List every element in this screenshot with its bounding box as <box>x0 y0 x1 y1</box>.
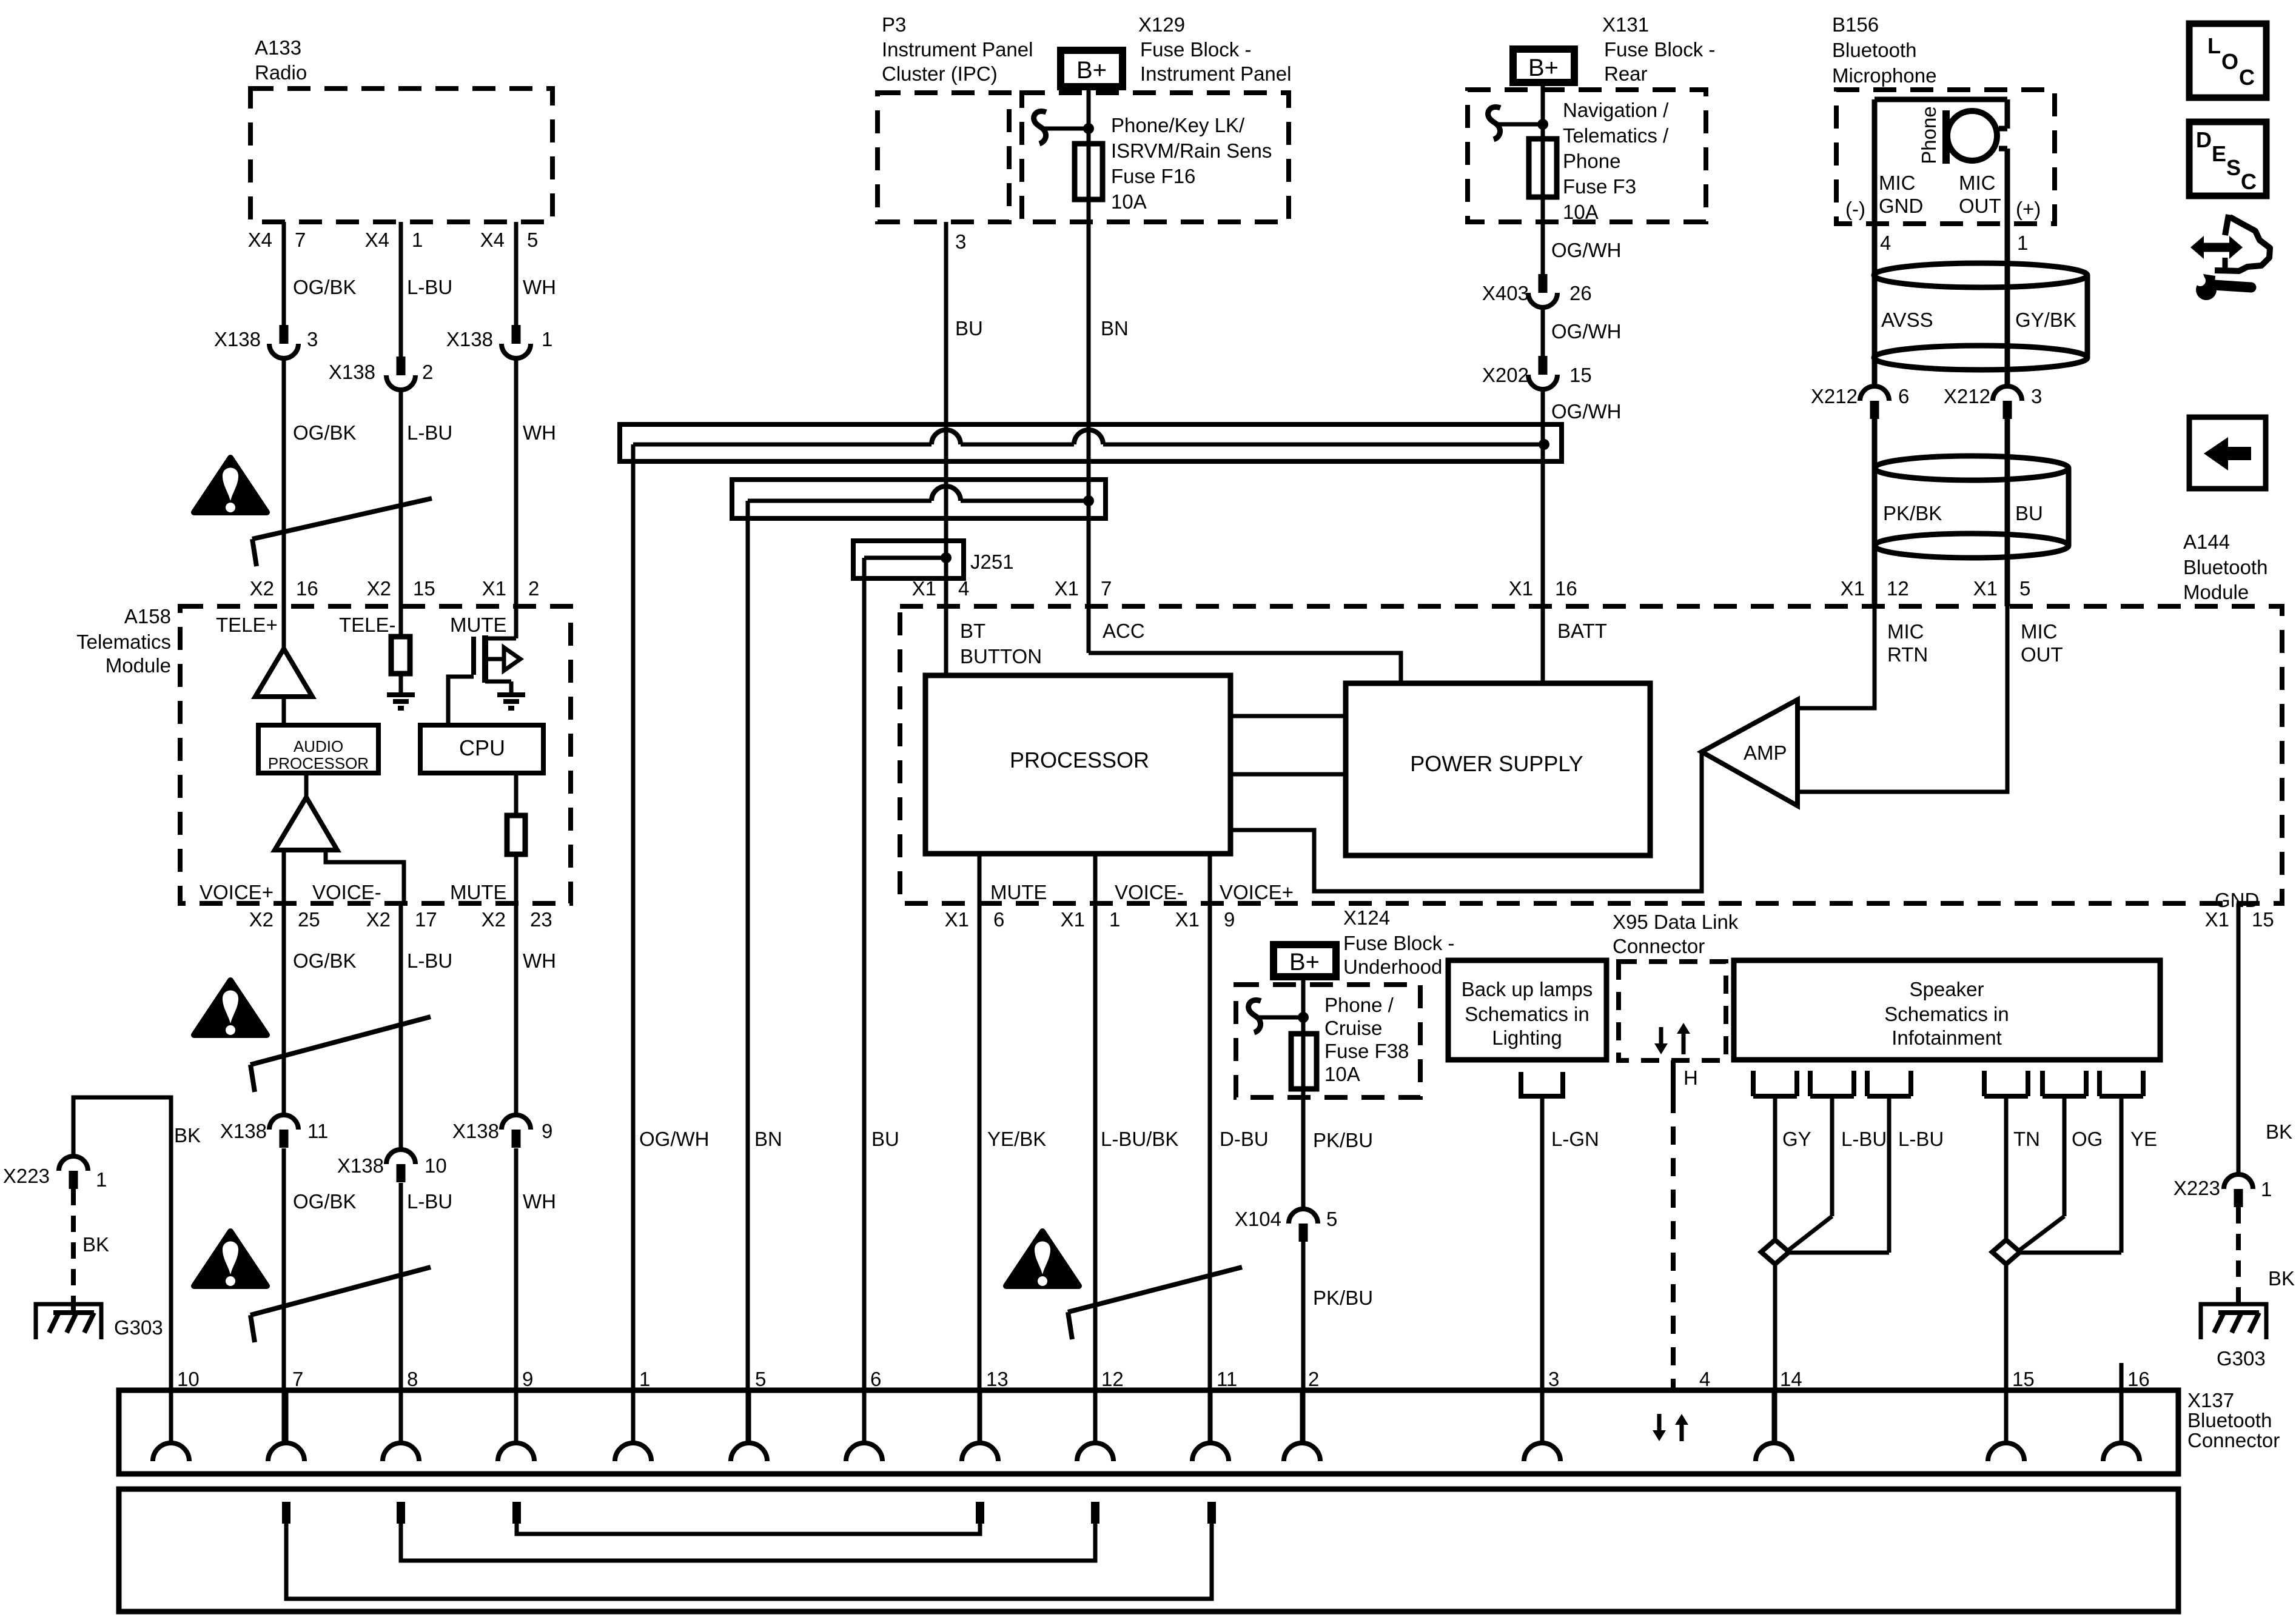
svg-text:VOICE+: VOICE+ <box>200 881 274 903</box>
svg-text:H: H <box>1683 1066 1698 1089</box>
svg-text:X2: X2 <box>249 908 274 931</box>
svg-text:BU: BU <box>955 317 983 340</box>
svg-text:X403: X403 <box>1482 282 1529 304</box>
svg-text:9: 9 <box>542 1120 552 1142</box>
svg-text:OUT: OUT <box>2021 643 2063 666</box>
svg-text:11: 11 <box>307 1120 328 1142</box>
svg-text:17: 17 <box>415 908 437 931</box>
svg-text:10A: 10A <box>1324 1063 1360 1085</box>
svg-text:BU: BU <box>2015 502 2043 524</box>
svg-text:X2: X2 <box>482 908 506 931</box>
svg-text:(+): (+) <box>2016 198 2041 220</box>
svg-text:Speaker: Speaker <box>1910 978 1984 1000</box>
svg-text:BK: BK <box>174 1124 201 1147</box>
svg-text:X104: X104 <box>1235 1208 1281 1230</box>
svg-text:Cluster (IPC): Cluster (IPC) <box>882 62 998 85</box>
svg-text:1: 1 <box>2261 1178 2272 1200</box>
svg-text:5: 5 <box>527 229 538 251</box>
svg-text:X137: X137 <box>2187 1389 2234 1411</box>
svg-text:X212: X212 <box>1811 385 1858 407</box>
svg-text:PK/BU: PK/BU <box>1313 1129 1373 1151</box>
svg-text:L-BU/BK: L-BU/BK <box>1101 1128 1178 1150</box>
svg-text:Bluetooth: Bluetooth <box>2187 1409 2272 1431</box>
svg-text:OG/BK: OG/BK <box>293 1190 357 1213</box>
svg-text:X2: X2 <box>250 577 274 600</box>
svg-text:Underhood: Underhood <box>1343 956 1442 978</box>
svg-text:6: 6 <box>1898 385 1909 407</box>
svg-text:GY: GY <box>1782 1128 1811 1150</box>
svg-text:Radio: Radio <box>255 61 307 84</box>
svg-text:1: 1 <box>1109 908 1120 931</box>
svg-text:X1: X1 <box>482 577 506 600</box>
svg-text:Schematics in: Schematics in <box>1465 1003 1589 1025</box>
svg-text:Bluetooth: Bluetooth <box>1832 39 1916 61</box>
svg-text:25: 25 <box>298 908 320 931</box>
svg-text:C: C <box>2241 169 2257 194</box>
svg-text:10A: 10A <box>1111 190 1147 213</box>
svg-text:OG/WH: OG/WH <box>639 1128 709 1150</box>
svg-text:MIC: MIC <box>1879 172 1916 194</box>
svg-text:Fuse Block -: Fuse Block - <box>1604 38 1715 61</box>
svg-text:Cruise: Cruise <box>1324 1017 1382 1039</box>
svg-text:1: 1 <box>639 1368 650 1390</box>
svg-text:BATT: BATT <box>1557 620 1607 642</box>
svg-text:1: 1 <box>412 229 423 251</box>
svg-text:4: 4 <box>958 577 969 600</box>
svg-text:X2: X2 <box>367 577 391 600</box>
svg-text:X95 Data Link: X95 Data Link <box>1613 911 1739 933</box>
svg-text:5: 5 <box>755 1368 766 1390</box>
svg-text:Fuse F16: Fuse F16 <box>1111 165 1195 187</box>
svg-text:Phone: Phone <box>1918 106 1940 164</box>
svg-text:OG/WH: OG/WH <box>1551 400 1621 423</box>
svg-text:L: L <box>2207 33 2221 58</box>
svg-text:GY/BK: GY/BK <box>2015 309 2076 331</box>
svg-text:Fuse Block -: Fuse Block - <box>1140 38 1251 61</box>
svg-text:J251: J251 <box>970 551 1014 573</box>
svg-text:X223: X223 <box>2173 1177 2220 1199</box>
svg-text:B+: B+ <box>1289 949 1320 976</box>
svg-text:AMP: AMP <box>1744 742 1787 764</box>
svg-text:6: 6 <box>870 1368 881 1390</box>
svg-text:X1: X1 <box>1973 577 1998 600</box>
svg-text:10: 10 <box>177 1368 200 1390</box>
svg-text:BN: BN <box>754 1128 782 1150</box>
svg-text:PK/BK: PK/BK <box>1883 502 1942 524</box>
svg-text:16: 16 <box>1555 577 1577 600</box>
svg-text:14: 14 <box>1780 1368 1802 1390</box>
svg-text:WH: WH <box>523 421 556 444</box>
svg-text:OG/WH: OG/WH <box>1551 239 1621 261</box>
svg-text:13: 13 <box>986 1368 1009 1390</box>
svg-text:3: 3 <box>1548 1368 1559 1390</box>
svg-text:7: 7 <box>295 229 306 251</box>
svg-text:Fuse F3: Fuse F3 <box>1563 175 1636 198</box>
svg-text:X223: X223 <box>3 1165 50 1187</box>
svg-text:ISRVM/Rain Sens: ISRVM/Rain Sens <box>1111 139 1272 162</box>
svg-text:Back up lamps: Back up lamps <box>1462 978 1593 1000</box>
svg-text:9: 9 <box>522 1368 533 1390</box>
svg-text:Module: Module <box>2183 581 2249 603</box>
svg-text:Module: Module <box>106 654 171 677</box>
svg-text:A144: A144 <box>2183 531 2230 553</box>
svg-text:12: 12 <box>1887 577 1909 600</box>
svg-text:L-BU: L-BU <box>407 276 452 298</box>
svg-text:9: 9 <box>1224 908 1235 931</box>
svg-text:Instrument Panel: Instrument Panel <box>1140 62 1291 85</box>
svg-text:X1: X1 <box>1061 908 1085 931</box>
svg-text:X1: X1 <box>1509 577 1533 600</box>
svg-text:X4: X4 <box>248 229 272 251</box>
svg-text:Microphone: Microphone <box>1832 64 1936 87</box>
svg-text:X1: X1 <box>945 908 969 931</box>
svg-text:E: E <box>2212 141 2226 166</box>
svg-text:X138: X138 <box>337 1154 384 1177</box>
svg-text:X1: X1 <box>2205 908 2229 931</box>
svg-text:VOICE-: VOICE- <box>1115 881 1184 903</box>
svg-text:(-): (-) <box>1845 198 1865 220</box>
svg-text:BK: BK <box>82 1233 109 1256</box>
svg-text:L-GN: L-GN <box>1551 1128 1599 1150</box>
svg-text:YE/BK: YE/BK <box>987 1128 1046 1150</box>
svg-text:10A: 10A <box>1563 201 1599 223</box>
svg-text:5: 5 <box>2019 577 2030 600</box>
svg-text:WH: WH <box>523 949 556 972</box>
svg-text:10: 10 <box>425 1154 447 1177</box>
svg-text:Telematics /: Telematics / <box>1563 124 1669 147</box>
svg-text:23: 23 <box>530 908 552 931</box>
svg-text:GND: GND <box>1879 195 1923 217</box>
svg-text:Lighting: Lighting <box>1492 1026 1562 1049</box>
svg-text:S: S <box>2226 155 2241 180</box>
svg-text:BN: BN <box>1101 317 1129 340</box>
svg-text:MIC: MIC <box>1959 172 1996 194</box>
svg-text:B+: B+ <box>1528 55 1559 81</box>
svg-text:Rear: Rear <box>1604 62 1648 85</box>
svg-text:X131: X131 <box>1602 13 1649 36</box>
svg-text:VOICE+: VOICE+ <box>1220 881 1294 903</box>
svg-text:D-BU: D-BU <box>1220 1128 1269 1150</box>
svg-text:6: 6 <box>993 908 1004 931</box>
svg-text:4: 4 <box>1699 1368 1710 1390</box>
svg-text:Navigation /: Navigation / <box>1563 99 1669 121</box>
svg-text:MUTE: MUTE <box>450 614 507 636</box>
svg-text:2: 2 <box>422 361 433 383</box>
svg-text:1: 1 <box>2017 232 2028 254</box>
svg-text:2: 2 <box>528 577 539 600</box>
svg-text:7: 7 <box>292 1368 303 1390</box>
svg-text:12: 12 <box>1101 1368 1124 1390</box>
svg-text:OG/BK: OG/BK <box>293 421 357 444</box>
svg-text:Fuse F38: Fuse F38 <box>1324 1040 1409 1062</box>
svg-text:5: 5 <box>1326 1208 1337 1230</box>
svg-text:8: 8 <box>407 1368 418 1390</box>
svg-text:A133: A133 <box>255 36 301 59</box>
svg-text:POWER SUPPLY: POWER SUPPLY <box>1410 751 1583 776</box>
svg-text:BK: BK <box>2268 1267 2295 1290</box>
svg-text:OG/BK: OG/BK <box>293 949 357 972</box>
svg-text:Schematics in: Schematics in <box>1884 1003 2009 1025</box>
svg-text:BU: BU <box>871 1128 899 1150</box>
svg-text:15: 15 <box>2012 1368 2035 1390</box>
svg-text:CPU: CPU <box>459 735 505 760</box>
svg-text:Infotainment: Infotainment <box>1892 1026 2002 1049</box>
svg-text:WH: WH <box>523 276 556 298</box>
svg-text:TELE-: TELE- <box>339 614 396 636</box>
svg-text:G303: G303 <box>2217 1347 2266 1370</box>
svg-text:X2: X2 <box>366 908 391 931</box>
svg-text:3: 3 <box>955 230 966 253</box>
svg-text:B156: B156 <box>1832 13 1879 36</box>
svg-text:16: 16 <box>296 577 318 600</box>
svg-text:X202: X202 <box>1482 364 1529 386</box>
svg-text:L-BU: L-BU <box>407 421 452 444</box>
svg-text:MUTE: MUTE <box>450 881 507 903</box>
svg-text:D: D <box>2196 127 2212 152</box>
svg-text:TN: TN <box>2013 1128 2040 1150</box>
svg-text:Phone/Key LK/: Phone/Key LK/ <box>1111 114 1245 136</box>
svg-text:26: 26 <box>1569 282 1592 304</box>
svg-text:15: 15 <box>1569 364 1592 386</box>
svg-text:MIC: MIC <box>1887 620 1924 643</box>
svg-text:X1: X1 <box>1175 908 1200 931</box>
svg-text:1: 1 <box>96 1168 107 1191</box>
svg-text:X4: X4 <box>480 229 505 251</box>
svg-text:ACC: ACC <box>1103 620 1145 642</box>
svg-text:P3: P3 <box>882 13 906 36</box>
svg-text:VOICE-: VOICE- <box>312 881 381 903</box>
svg-text:16: 16 <box>2127 1368 2150 1390</box>
svg-text:OUT: OUT <box>1959 195 2001 217</box>
svg-text:Connector: Connector <box>1613 935 1705 957</box>
svg-text:BT: BT <box>960 620 985 642</box>
svg-text:MUTE: MUTE <box>990 881 1047 903</box>
svg-text:C: C <box>2239 65 2255 90</box>
svg-text:TELE+: TELE+ <box>216 614 278 636</box>
svg-text:PROCESSOR: PROCESSOR <box>268 754 369 772</box>
svg-text:3: 3 <box>307 328 318 350</box>
svg-text:Phone: Phone <box>1563 150 1620 172</box>
svg-text:L-BU: L-BU <box>407 1190 452 1213</box>
svg-text:X138: X138 <box>446 328 493 350</box>
svg-text:1: 1 <box>542 328 552 350</box>
svg-text:Connector: Connector <box>2187 1429 2280 1451</box>
svg-text:X129: X129 <box>1138 13 1185 36</box>
svg-text:OG: OG <box>2072 1128 2103 1150</box>
svg-text:OG/BK: OG/BK <box>293 276 357 298</box>
svg-text:11: 11 <box>1217 1368 1237 1390</box>
svg-text:PK/BU: PK/BU <box>1313 1287 1373 1309</box>
svg-text:X4: X4 <box>365 229 389 251</box>
svg-text:3: 3 <box>2031 385 2042 407</box>
svg-text:Bluetooth: Bluetooth <box>2183 556 2267 578</box>
svg-text:15: 15 <box>413 577 435 600</box>
svg-text:RTN: RTN <box>1887 643 1928 666</box>
svg-text:X138: X138 <box>214 328 261 350</box>
svg-text:Instrument Panel: Instrument Panel <box>882 38 1033 61</box>
svg-text:O: O <box>2221 49 2238 74</box>
svg-text:L-BU: L-BU <box>1841 1128 1887 1150</box>
svg-text:X1: X1 <box>1055 577 1079 600</box>
svg-text:X138: X138 <box>452 1120 499 1142</box>
svg-text:MIC: MIC <box>2021 620 2058 643</box>
svg-text:BK: BK <box>2266 1120 2292 1143</box>
svg-text:A158: A158 <box>124 605 171 628</box>
svg-text:BUTTON: BUTTON <box>960 645 1042 668</box>
svg-text:X138: X138 <box>220 1120 267 1142</box>
svg-text:AVSS: AVSS <box>1881 309 1933 331</box>
svg-text:Telematics: Telematics <box>76 631 171 653</box>
svg-text:B+: B+ <box>1076 57 1107 84</box>
svg-text:X124: X124 <box>1343 906 1390 929</box>
svg-text:Fuse Block -: Fuse Block - <box>1343 932 1454 954</box>
svg-text:YE: YE <box>2130 1128 2157 1150</box>
svg-text:X1: X1 <box>912 577 936 600</box>
svg-text:7: 7 <box>1101 577 1112 600</box>
svg-text:OG/WH: OG/WH <box>1551 320 1621 343</box>
svg-text:AUDIO: AUDIO <box>294 737 343 755</box>
svg-text:WH: WH <box>523 1190 556 1213</box>
svg-text:4: 4 <box>1880 232 1891 254</box>
svg-text:PROCESSOR: PROCESSOR <box>1010 748 1149 772</box>
svg-text:X212: X212 <box>1944 385 1990 407</box>
svg-text:X138: X138 <box>329 361 375 383</box>
svg-text:G303: G303 <box>114 1316 163 1339</box>
svg-text:X1: X1 <box>1841 577 1865 600</box>
svg-text:L-BU: L-BU <box>1898 1128 1944 1150</box>
svg-text:15: 15 <box>2252 908 2274 931</box>
svg-text:Phone /: Phone / <box>1324 994 1394 1016</box>
svg-text:2: 2 <box>1308 1368 1319 1390</box>
svg-text:L-BU: L-BU <box>407 949 452 972</box>
